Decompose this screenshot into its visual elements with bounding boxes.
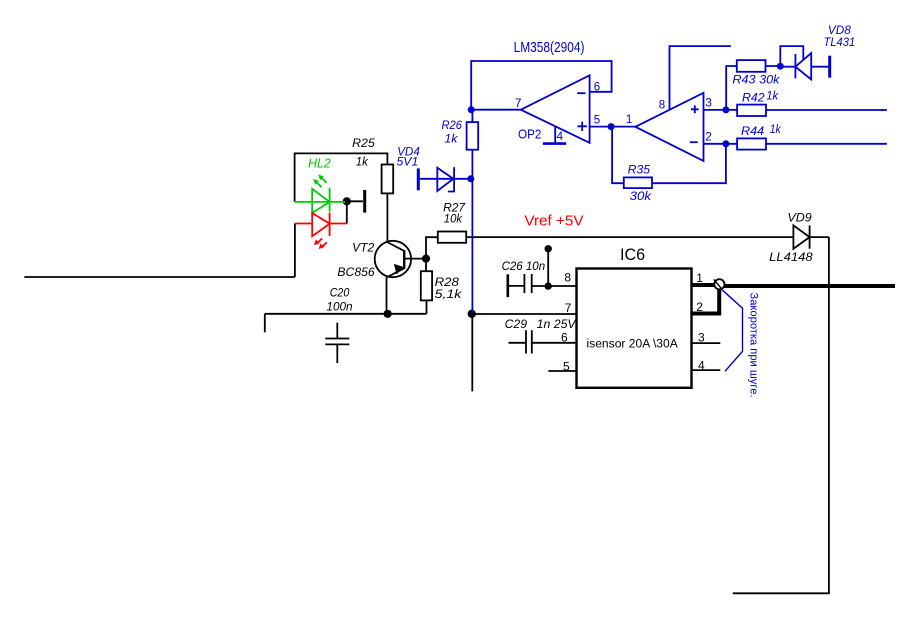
svg-text:R25: R25 — [352, 136, 375, 150]
svg-text:1k: 1k — [356, 154, 369, 168]
svg-text:C29: C29 — [505, 317, 528, 331]
svg-text:LM358(2904): LM358(2904) — [514, 40, 585, 56]
svg-text:R44: R44 — [741, 124, 764, 138]
svg-text:6: 6 — [561, 331, 568, 345]
svg-text:100n: 100n — [326, 300, 353, 314]
svg-text:7: 7 — [515, 98, 521, 110]
svg-text:C26 10n: C26 10n — [502, 259, 546, 273]
svg-text:LL4148: LL4148 — [769, 250, 813, 264]
svg-text:HL2: HL2 — [308, 157, 331, 171]
svg-text:8: 8 — [564, 271, 571, 285]
svg-text:R43 30k: R43 30k — [732, 73, 780, 87]
svg-text:1: 1 — [696, 271, 703, 285]
svg-text:C20: C20 — [330, 285, 350, 299]
svg-text:5,1k: 5,1k — [435, 287, 463, 301]
svg-text:R42: R42 — [742, 91, 765, 105]
svg-text:BC856: BC856 — [337, 265, 375, 279]
svg-text:8: 8 — [659, 99, 665, 111]
svg-text:10k: 10k — [444, 211, 463, 225]
svg-text:4: 4 — [557, 131, 564, 143]
svg-text:3: 3 — [706, 97, 712, 109]
svg-text:2: 2 — [705, 131, 711, 143]
svg-text:4: 4 — [698, 359, 705, 373]
svg-text:5: 5 — [563, 360, 570, 374]
svg-text:1n 25V: 1n 25V — [537, 317, 577, 331]
svg-text:1k: 1k — [444, 131, 458, 145]
svg-text:IC6: IC6 — [620, 245, 645, 264]
svg-text:Закоротка при шуге.: Закоротка при шуге. — [748, 293, 760, 398]
svg-text:30k: 30k — [630, 189, 652, 203]
svg-text:isensor 20A \30A: isensor 20A \30A — [587, 338, 679, 350]
svg-text:VD9: VD9 — [787, 210, 812, 224]
svg-text:6: 6 — [594, 82, 600, 94]
svg-text:OP2: OP2 — [518, 127, 541, 142]
svg-text:R35: R35 — [628, 163, 651, 177]
svg-text:7: 7 — [565, 301, 572, 315]
svg-text:3: 3 — [698, 331, 705, 345]
svg-text:1k: 1k — [770, 122, 782, 136]
svg-text:1: 1 — [626, 114, 632, 126]
svg-text:5: 5 — [594, 115, 600, 127]
svg-text:5V1: 5V1 — [397, 155, 419, 169]
svg-text:R26: R26 — [442, 118, 463, 132]
svg-text:VT2: VT2 — [352, 241, 374, 255]
svg-text:1k: 1k — [766, 89, 779, 103]
svg-text:Vref +5V: Vref +5V — [524, 214, 583, 230]
svg-text:TL431: TL431 — [824, 35, 856, 49]
svg-text:2: 2 — [696, 300, 703, 314]
